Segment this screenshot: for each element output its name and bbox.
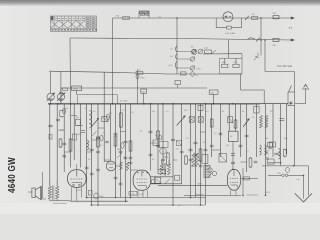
svg-text:4640 GW: 4640 GW: [6, 157, 17, 193]
svg-text:2W: 2W: [273, 45, 276, 47]
svg-text:0,1: 0,1: [88, 159, 91, 161]
svg-text:0,1: 0,1: [166, 111, 169, 113]
svg-text:0,1: 0,1: [214, 133, 217, 135]
svg-text:0,3: 0,3: [186, 138, 189, 140]
svg-text:1M: 1M: [76, 117, 79, 119]
svg-text:PhG: PhG: [141, 78, 145, 80]
svg-text:5-25: 5-25: [184, 110, 188, 112]
svg-text:470 kHz: 470 kHz: [120, 101, 127, 103]
svg-text:W: W: [140, 131, 142, 133]
svg-text:Doppelr.: Doppelr.: [196, 193, 204, 196]
svg-text:5n: 5n: [203, 142, 205, 144]
svg-text:0,1: 0,1: [206, 111, 209, 113]
svg-text:6,3V 0,3A: 6,3V 0,3A: [225, 32, 235, 35]
svg-text:2000: 2000: [77, 134, 81, 136]
svg-text:0,1: 0,1: [93, 111, 96, 113]
svg-text:50µF: 50µF: [99, 196, 104, 198]
svg-text:0,25: 0,25: [60, 130, 64, 132]
svg-text:0,5: 0,5: [152, 159, 155, 161]
svg-text:0,1: 0,1: [60, 117, 63, 119]
svg-text:Doppelrohre: Doppelrohre: [247, 194, 259, 197]
svg-text:Zwischenkreis: Zwischenkreis: [53, 202, 68, 205]
svg-text:30: 30: [242, 111, 244, 113]
svg-text:30: 30: [66, 108, 68, 110]
svg-text:ZF2: ZF2: [270, 111, 273, 113]
svg-text:P2G: P2G: [197, 69, 201, 71]
svg-text:50: 50: [64, 157, 66, 159]
svg-text:0,5: 0,5: [100, 145, 103, 147]
svg-text:Für 220 Volt: Für 220 Volt: [278, 64, 293, 68]
svg-text:50: 50: [222, 111, 224, 113]
svg-text:50: 50: [103, 133, 105, 135]
svg-text:220: 220: [278, 173, 281, 175]
svg-text:50: 50: [132, 112, 134, 114]
svg-text:2M: 2M: [211, 92, 214, 94]
svg-text:0,3: 0,3: [85, 108, 88, 110]
svg-text:0,1: 0,1: [155, 135, 158, 137]
svg-text:U 11: U 11: [130, 193, 135, 195]
svg-text:5000: 5000: [117, 149, 121, 151]
svg-text:0,1: 0,1: [246, 151, 249, 153]
svg-text:0,5: 0,5: [122, 110, 125, 112]
svg-text:UCL: UCL: [266, 192, 271, 194]
